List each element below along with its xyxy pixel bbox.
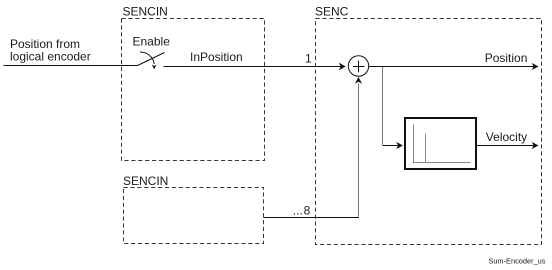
svg-text:SENCIN: SENCIN (123, 174, 168, 188)
svg-text:Position: Position (485, 51, 528, 65)
svg-text:1: 1 (305, 52, 312, 66)
svg-text:logical encoder: logical encoder (10, 50, 91, 64)
svg-text:Velocity: Velocity (486, 130, 527, 144)
svg-text:...: ... (293, 204, 303, 218)
svg-text:Sum-Encoder_us: Sum-Encoder_us (488, 256, 545, 265)
svg-text:Enable: Enable (133, 34, 171, 48)
svg-text:SENC: SENC (315, 5, 349, 19)
svg-text:InPosition: InPosition (190, 50, 243, 64)
svg-text:8: 8 (304, 204, 311, 218)
svg-text:SENCIN: SENCIN (123, 5, 168, 19)
